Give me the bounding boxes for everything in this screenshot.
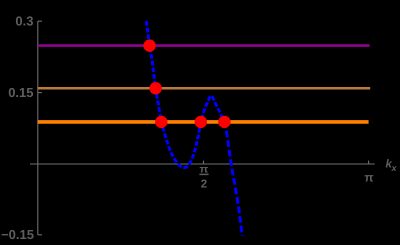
x label pi/2 fraction xyxy=(199,163,208,190)
red dot 4 on orange line xyxy=(195,116,207,128)
x-axis xyxy=(30,163,375,165)
orange horizontal line xyxy=(38,120,369,124)
blue dashed curve tail xyxy=(224,121,242,236)
purple horizontal line xyxy=(38,44,370,47)
red dot 1 on purple line xyxy=(143,39,155,51)
svg-text:0.3: 0.3 xyxy=(15,14,33,29)
svg-text:0.15: 0.15 xyxy=(8,85,33,100)
tan horizontal line xyxy=(38,87,370,90)
x tick pi/2 xyxy=(203,161,205,164)
svg-text:x: x xyxy=(391,163,398,173)
svg-text:π: π xyxy=(200,163,209,175)
y tick 0.15 xyxy=(38,92,42,94)
y tick 0.3 xyxy=(38,20,42,22)
blue dashed curve xyxy=(146,21,224,168)
svg-text:π: π xyxy=(364,171,373,185)
svg-text:−0.15: −0.15 xyxy=(1,227,34,242)
y tick -0.15 xyxy=(38,234,42,236)
red dot 5 on orange line xyxy=(218,116,230,128)
svg-text:2: 2 xyxy=(201,178,207,190)
red dot 2 on tan line xyxy=(149,82,161,94)
y-axis xyxy=(37,21,39,235)
red dot 3 on orange line xyxy=(155,116,167,128)
x tick pi xyxy=(368,161,370,164)
axis label k_x xyxy=(386,159,398,174)
